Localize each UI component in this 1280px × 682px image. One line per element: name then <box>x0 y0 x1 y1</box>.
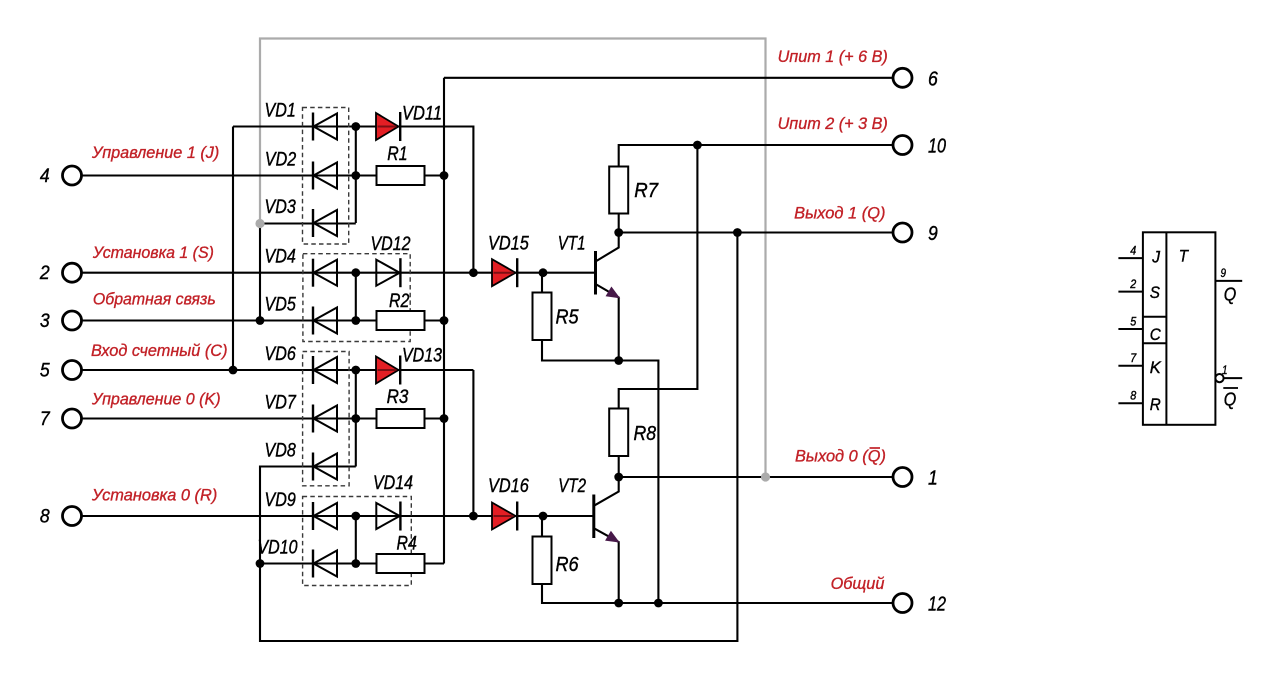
wire R8 bottom lead <box>618 456 620 477</box>
wire VD10 row <box>260 562 356 564</box>
svg-text:T: T <box>1179 247 1190 266</box>
svg-text:Управление 1 (J): Управление 1 (J) <box>91 143 219 162</box>
gray node dot on Q-bar output row <box>761 472 770 481</box>
svg-text:9: 9 <box>1221 266 1227 280</box>
transistor VT2 emitter arrow <box>607 533 618 542</box>
terminal pin 12 <box>893 594 912 613</box>
transistor VT2 base bar <box>592 495 595 539</box>
svg-text:VD15: VD15 <box>488 232 529 254</box>
svg-text:VT2: VT2 <box>558 475 586 497</box>
terminal pin 2 <box>63 263 82 282</box>
transistor VT1 collector lead <box>596 233 619 262</box>
diode VD10 <box>313 550 337 578</box>
svg-text:R1: R1 <box>387 143 407 165</box>
terminal pin 8 <box>63 507 82 526</box>
wire ground row to pin 12 <box>542 584 893 603</box>
wire R5 bottom to VT1 emitter node and ground drop <box>542 340 658 603</box>
svg-text:Управление 0 (K): Управление 0 (K) <box>91 389 221 408</box>
dashed group box VD4-VD5 with VD12 <box>303 254 410 342</box>
svg-text:10: 10 <box>928 136 946 158</box>
wire VD1 row through VD11 with drop to VD12 row <box>233 127 473 273</box>
diode VD4 <box>313 259 337 287</box>
svg-text:R3: R3 <box>387 386 409 408</box>
wire common anode rail group3 <box>355 370 357 467</box>
svg-text:VD16: VD16 <box>488 475 529 497</box>
flip-flop pin stub J <box>1118 257 1143 259</box>
svg-text:VD8: VD8 <box>265 440 296 462</box>
diode VD8 <box>313 453 337 481</box>
diode VD13 (red) <box>376 356 400 385</box>
dashed group box VD9-VD10 with VD14 <box>303 497 412 586</box>
diode VD11 (red) <box>376 112 400 141</box>
flip-flop pin stub C <box>1118 328 1143 330</box>
junction group2 anode rail at VD4 row <box>351 268 360 277</box>
flip-flop inversion bubble <box>1215 374 1223 382</box>
junction group4 anode rail at VD9 row <box>351 512 360 521</box>
svg-text:Q: Q <box>1224 389 1237 409</box>
transistor VT1 emitter arrow <box>607 288 618 297</box>
svg-text:Установка 1 (S): Установка 1 (S) <box>92 243 214 262</box>
svg-text:6: 6 <box>928 68 939 90</box>
svg-text:VD11: VD11 <box>402 103 442 125</box>
svg-text:Uпит 2 (+ 3 В): Uпит 2 (+ 3 В) <box>778 114 888 133</box>
resistor R4 <box>377 554 425 573</box>
svg-text:R6: R6 <box>556 553 580 576</box>
svg-text:VD7: VD7 <box>265 392 297 414</box>
wire R6 top lead <box>541 516 543 537</box>
svg-text:K: K <box>1150 358 1162 377</box>
diode VD15 (red) <box>492 258 517 287</box>
dashed group box VD6-VD8 <box>303 352 350 486</box>
diode VD5 <box>313 307 337 335</box>
resistor R1 <box>377 166 425 185</box>
svg-text:12: 12 <box>928 594 946 616</box>
wire R7 bottom lead <box>618 214 620 233</box>
svg-text:4: 4 <box>40 165 50 187</box>
diode VD9 <box>313 502 337 530</box>
wire R8 riser from +3V rail <box>619 145 698 409</box>
junction R8 riser on +3V row <box>693 141 702 150</box>
svg-text:Выход 0 (Q): Выход 0 (Q) <box>795 447 886 466</box>
svg-text:Обратная связь: Обратная связь <box>93 290 216 309</box>
dashed group box VD1-VD3 <box>303 108 349 245</box>
transistor VT1 emitter lead <box>596 284 619 361</box>
wire +6V bias rail <box>443 78 445 564</box>
svg-text:J: J <box>1151 247 1160 266</box>
svg-text:VD2: VD2 <box>265 148 296 170</box>
svg-text:VD12: VD12 <box>371 233 411 255</box>
svg-text:VD13: VD13 <box>402 345 442 367</box>
wire VD8 row and Q feedback loop around bottom <box>260 233 737 642</box>
svg-text:Общий: Общий <box>831 574 885 593</box>
junction Q feedback on VD10 row <box>256 559 265 568</box>
svg-text:Q: Q <box>1224 285 1237 305</box>
diode VD6 <box>313 356 337 384</box>
svg-text:3: 3 <box>40 310 50 332</box>
resistor R2 <box>377 311 425 330</box>
wire output Q row to pin 9 <box>619 231 893 233</box>
flip-flop pin stub R <box>1118 402 1143 404</box>
terminal pin 1 <box>893 468 912 487</box>
svg-text:VD9: VD9 <box>265 489 296 511</box>
svg-text:8: 8 <box>40 506 50 528</box>
junction VT2 base node with R6 <box>539 512 548 521</box>
svg-text:VD4: VD4 <box>265 246 296 268</box>
svg-text:VD3: VD3 <box>265 196 296 218</box>
junction VT1 emitter drop on ground row <box>654 599 663 608</box>
diode VD2 <box>313 162 337 190</box>
junction R3 to +6V rail <box>440 414 449 423</box>
svg-text:R5: R5 <box>556 305 580 328</box>
diode VD7 <box>313 405 337 433</box>
svg-text:7: 7 <box>40 408 51 430</box>
wire Upit2 +3V row to pin 10 <box>619 145 893 167</box>
svg-text:VD10: VD10 <box>258 537 298 559</box>
junction group2 anode rail at VD5/R2 row <box>351 316 360 325</box>
svg-text:S: S <box>1150 283 1161 302</box>
wire output Q-bar row to pin 1 <box>619 476 893 478</box>
diode VD3 <box>313 209 337 237</box>
junction R1 to +6V rail <box>440 171 449 180</box>
junction VD13 drop joins VD14 output (node G2) <box>469 512 478 521</box>
svg-text:Вход счетный (С): Вход счетный (С) <box>91 341 228 360</box>
terminal pin 6 <box>893 68 912 87</box>
flip-flop pin stub S <box>1118 291 1143 293</box>
svg-text:VD6: VD6 <box>265 343 296 365</box>
junction group3 anode rail at VD7/R3 row <box>351 414 360 423</box>
svg-text:R7: R7 <box>634 179 659 202</box>
terminal pin 5 <box>63 361 82 380</box>
terminal pin 10 <box>893 136 912 155</box>
flip-flop pin stub Q <box>1215 280 1242 282</box>
svg-text:8: 8 <box>1130 389 1136 403</box>
junction R2 to +6V rail <box>440 316 449 325</box>
overline on Q-bar label <box>870 447 881 449</box>
svg-text:5: 5 <box>1130 314 1136 328</box>
wire input C row (pin 5 through VD6 VD13) <box>82 369 474 371</box>
flip-flop symbol U1 body <box>1118 232 1242 424</box>
svg-text:VD14: VD14 <box>373 472 413 494</box>
transistor VT2 emitter lead <box>594 528 619 603</box>
junction Q feedback tap on output 1 row <box>733 228 742 237</box>
svg-text:R: R <box>1150 395 1161 414</box>
terminal pin 4 <box>63 166 82 185</box>
diode VD16 (red) <box>492 502 517 531</box>
wire input K row (pin 7 to VD7 and R3) <box>82 417 445 419</box>
svg-text:R4: R4 <box>397 533 417 555</box>
svg-text:R8: R8 <box>634 422 657 445</box>
junction C rail on pin 5 row <box>229 366 238 375</box>
junction VT1 emitter with R5 return <box>614 356 623 365</box>
svg-text:1: 1 <box>928 468 938 490</box>
svg-text:VD5: VD5 <box>265 294 296 316</box>
wire input S row (pin 2 through VD4 VD12 VD15 to VT1 base) <box>82 272 596 274</box>
wire Q-bar feedback rail to pin3 row <box>259 224 261 321</box>
junction VT1 collector node (Q) <box>614 228 623 237</box>
svg-text:VD1: VD1 <box>265 100 296 122</box>
wire gray feedback Q-bar net (node QB routing) <box>260 39 766 478</box>
flip-flop pin stub K <box>1118 365 1143 367</box>
terminal pin 7 <box>63 409 82 428</box>
diode VD12 <box>376 258 400 287</box>
svg-text:2: 2 <box>1129 277 1136 291</box>
resistor R6 <box>533 537 552 585</box>
wire R4 row to bias rail <box>356 562 444 564</box>
svg-text:9: 9 <box>928 223 938 245</box>
junction VT1 base node with R5 <box>539 268 548 277</box>
junction group1 anode rail at VD1 row <box>351 122 360 131</box>
resistor R8 <box>609 409 628 457</box>
svg-text:Выход 1 (Q): Выход 1 (Q) <box>794 203 885 222</box>
resistor R7 <box>609 167 628 214</box>
svg-text:Установка 0 (R): Установка 0 (R) <box>91 486 217 505</box>
wire common anode rail group1 <box>355 127 357 224</box>
junction VT2 emitter on ground row <box>614 599 623 608</box>
flip-flop pin stub Q-bar <box>1224 377 1243 379</box>
diode VD14 <box>376 502 400 531</box>
junction group1 anode rail at VD2/R1 row <box>351 171 360 180</box>
junction VT2 collector node (Q-bar) <box>614 473 623 482</box>
diode VD1 <box>313 113 337 141</box>
svg-text:R2: R2 <box>389 290 409 312</box>
junction Q-bar feedback on pin 3 row <box>256 316 265 325</box>
svg-text:Uпит 1 (+ 6 В): Uпит 1 (+ 6 В) <box>778 47 888 66</box>
wire VD3 row <box>260 222 356 224</box>
gray node dot on VD3 feedback <box>255 219 264 228</box>
svg-text:5: 5 <box>40 360 50 382</box>
wire feedback row (pin 3 to VD5 and R2) <box>82 319 445 321</box>
junction VD11 drop joins VD12 output (node G1) <box>469 268 478 277</box>
terminal pin 9 <box>893 223 912 242</box>
junction group3 anode rail at VD6 row <box>351 366 360 375</box>
svg-text:C: C <box>1150 325 1162 344</box>
svg-text:VT1: VT1 <box>558 232 586 254</box>
resistor R3 <box>377 409 425 428</box>
wire Upit1 +6V row to pin 6 <box>444 77 893 79</box>
transistor VT2 collector lead <box>594 477 619 506</box>
wire input R row (pin 8 through VD9 VD14 VD16 to VT2 base) <box>82 515 594 517</box>
svg-text:1: 1 <box>1222 363 1228 377</box>
resistor R5 <box>533 293 552 341</box>
wire R5 top lead <box>541 273 543 293</box>
wire input J row (pin 4 to VD2 and R1) <box>82 174 445 176</box>
terminal pin 3 <box>63 311 82 330</box>
wire VD13 output drop to VD14 row <box>472 370 474 516</box>
junction group4 anode rail at VD10/R4 row <box>351 559 360 568</box>
wire common anode rail group2 <box>355 273 357 321</box>
svg-text:2: 2 <box>39 262 50 284</box>
flip-flop Q-bar overline <box>1223 387 1238 389</box>
wire C input rail <box>232 127 234 371</box>
wire common anode rail group4 <box>355 516 357 564</box>
svg-text:4: 4 <box>1130 243 1136 257</box>
transistor VT1 base bar <box>594 251 597 295</box>
